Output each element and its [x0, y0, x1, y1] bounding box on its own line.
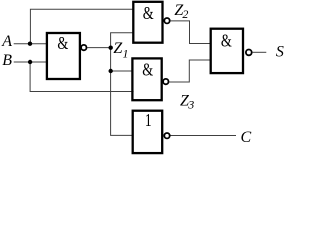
svg-text:&: &	[142, 61, 153, 80]
svg-text:S: S	[276, 44, 284, 61]
svg-text:2: 2	[182, 7, 188, 21]
svg-text:&: &	[143, 4, 154, 23]
svg-text:B: B	[2, 52, 12, 69]
svg-text:C: C	[241, 129, 252, 146]
svg-text:3: 3	[187, 98, 194, 112]
svg-text:A: A	[1, 33, 12, 50]
svg-text:&: &	[57, 35, 68, 54]
svg-text:1: 1	[145, 111, 152, 130]
svg-text:1: 1	[123, 47, 129, 61]
svg-text:&: &	[221, 32, 232, 51]
